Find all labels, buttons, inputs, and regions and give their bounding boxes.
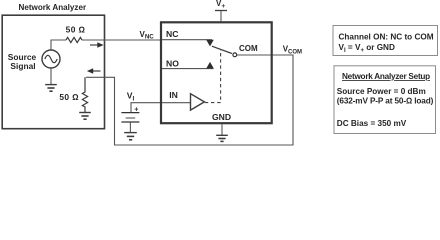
svg-text:Source Power = 0 dBm: Source Power = 0 dBm — [337, 87, 426, 96]
svg-text:DC Bias = 350 mV: DC Bias = 350 mV — [337, 119, 407, 128]
battery ground — [129, 123, 131, 133]
source V1 sine generator — [42, 50, 60, 68]
NO wire inside — [162, 68, 214, 70]
GND stub — [221, 125, 223, 136]
svg-text:NO: NO — [166, 59, 179, 69]
svg-text:50 Ω: 50 Ω — [66, 25, 86, 35]
battery VI plates — [121, 112, 139, 114]
COM contact circle — [233, 53, 237, 57]
resistor 50 ohm series — [66, 37, 82, 42]
svg-text:GND: GND — [212, 112, 231, 122]
svg-text:Network Analyzer: Network Analyzer — [18, 3, 86, 12]
svg-text:(632-mV P-P at 50-Ω load): (632-mV P-P at 50-Ω load) — [337, 96, 434, 105]
note box 2 — [334, 66, 436, 134]
NC wire inside — [162, 39, 212, 41]
svg-text:Network Analyzer Setup: Network Analyzer Setup — [342, 72, 430, 81]
dashed control line — [205, 50, 221, 103]
note box 1 — [333, 26, 438, 56]
NO contact triangle — [206, 62, 214, 69]
source ground — [50, 69, 52, 85]
V+ stub — [220, 11, 222, 22]
switch arm — [212, 46, 232, 53]
IN wire inside — [162, 102, 191, 104]
svg-text:COM: COM — [239, 44, 258, 53]
V+ supply bar — [215, 10, 227, 12]
GND ground symbol — [216, 134, 228, 136]
svg-text:50 Ω: 50 Ω — [59, 92, 79, 102]
buffer driver — [191, 94, 205, 110]
VI wire to IN — [131, 103, 161, 112]
arrow left annotation — [93, 70, 101, 72]
svg-text:Channel ON: NC to COM: Channel ON: NC to COM — [339, 33, 434, 42]
Network Analyzer box — [2, 15, 104, 129]
wire resistor to NC — [82, 39, 161, 41]
shunt resistor ground — [79, 112, 91, 114]
svg-text:Signal: Signal — [10, 61, 35, 71]
NC contact triangle — [206, 40, 214, 47]
shunt resistor 50 ohm — [82, 77, 87, 112]
return wire COM to shunt — [86, 55, 293, 145]
switch box U1 — [161, 22, 272, 123]
wire source top — [51, 40, 66, 50]
svg-text:NC: NC — [166, 29, 178, 39]
arrow right annotation — [90, 44, 98, 46]
svg-text:IN: IN — [169, 90, 178, 100]
